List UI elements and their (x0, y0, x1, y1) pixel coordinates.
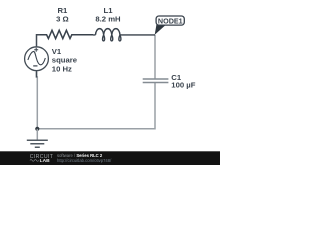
svg-text:8.2 mH: 8.2 mH (95, 15, 121, 24)
inductor L1 (96, 29, 121, 41)
wire V1 bottom to ground junction (36, 71, 39, 129)
svg-text:R1: R1 (57, 6, 68, 15)
inductor leads (93, 34, 155, 36)
V1 minus sign (33, 65, 37, 67)
svg-text:10 Hz: 10 Hz (52, 64, 72, 73)
V1 sine wave (28, 51, 45, 64)
svg-text:100 µF: 100 µF (171, 80, 195, 89)
wire top net V1 to R to L to node (37, 35, 47, 47)
resistor R1 (40, 30, 93, 38)
svg-text:L1: L1 (104, 6, 114, 15)
ground symbol (36, 129, 38, 140)
node flag NODE1 tail (155, 24, 167, 34)
svg-text:3 Ω: 3 Ω (56, 15, 69, 24)
voltage source V1 circle (25, 47, 49, 71)
svg-text:LAB: LAB (40, 158, 51, 164)
wire node down to C1 top (154, 35, 156, 79)
node flag NODE1 box (156, 16, 184, 25)
capacitor C1 plates (143, 79, 169, 83)
svg-text:square: square (52, 55, 78, 64)
junction dot ground node (35, 127, 39, 131)
footer logo wave (30, 160, 39, 162)
V1 plus sign (34, 48, 38, 52)
svg-text:NODE1: NODE1 (158, 16, 183, 25)
wire V1 bottom terminal (36, 71, 38, 78)
wire C1 bottom down and left to ground junction (37, 83, 155, 129)
footer bar (0, 151, 220, 165)
svg-text:http://circuitlab.com/c6vp748/: http://circuitlab.com/c6vp748/ (57, 158, 112, 163)
